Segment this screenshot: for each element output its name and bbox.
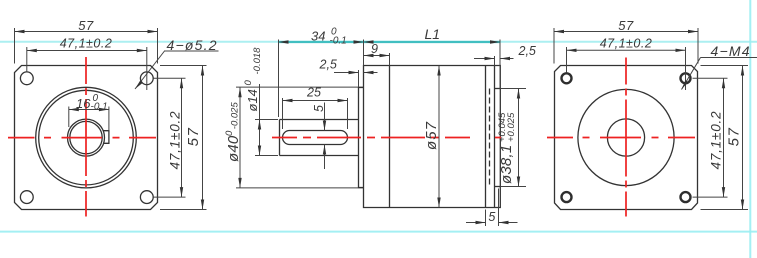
svg-text:0: 0 [243,80,254,86]
centerline vertical red [85,57,87,217]
dim line φ40 [239,87,241,188]
dim line 57 top [15,31,158,33]
label φ38,1 +0.045/+0.025 rotated [497,112,517,184]
pilot boss inner circle [39,90,134,185]
svg-text:-0.025: -0.025 [230,102,241,130]
svg-text:-0.018: -0.018 [252,47,263,75]
centerline vertical red right view [625,58,627,217]
svg-text:+0.025: +0.025 [506,112,517,142]
tapped hole M4 bottom-right [681,192,691,202]
extension lines right 57 right view [701,65,749,67]
dim 2,5 rear boss [494,56,496,66]
dim line right 47.1 right view [723,78,725,197]
svg-text:57: 57 [185,127,202,147]
keyway notch [103,131,109,144]
svg-text:16: 16 [76,96,91,111]
svg-text:2,5: 2,5 [319,58,337,72]
mounting hole top-left [20,72,33,85]
svg-text:57: 57 [726,127,743,147]
label 47,1±0.2 right rotated [168,111,183,170]
leader 4-M4 [701,57,757,59]
centerline horizontal red [8,137,167,139]
svg-text:25: 25 [306,86,321,100]
leader 4-φ5.2 [164,50,219,52]
shaft top edge [280,119,359,121]
label φ57 rotated [423,121,440,150]
centerline horizontal red right view [547,137,705,139]
mounting hole bottom-right [140,191,153,204]
svg-text:-0.1: -0.1 [91,102,108,113]
label 47,1±0.2 right rotated right view [709,111,724,170]
svg-text:47,1±0.2: 47,1±0.2 [709,111,724,170]
body rear face [485,66,487,208]
svg-text:-0.1: -0.1 [330,36,347,47]
svg-text:47,1±0.2: 47,1±0.2 [600,37,653,51]
dim line 47.1 top [27,50,147,52]
svg-text:5: 5 [312,105,326,112]
rear pilot boss [495,88,501,90]
pilot boss outer circle [36,87,137,188]
dim 25 keyway length [282,98,284,129]
cyan guide line top [0,41,757,43]
svg-text:5: 5 [488,210,495,224]
tapped hole M4 top-left [562,73,572,83]
svg-text:ø14: ø14 [245,89,260,111]
cyan guide line right vertical [749,0,751,258]
svg-text:L1: L1 [425,26,441,42]
extension lines 47.1 top [26,47,28,73]
flange square outline [555,66,698,210]
label φ14 0/-0.018 rotated [243,47,263,112]
extension lines right 47.1 [154,77,186,79]
dim 34 [278,40,280,118]
svg-text:ø40: ø40 [225,135,242,162]
dim φ57 [438,66,440,208]
extension lines right 47.1 right view [693,77,728,79]
hidden line rear [489,89,491,187]
dim line right 47.1 [181,78,183,197]
tapped hole M4 bottom-left [562,192,572,202]
dim 2,5 front boss [358,70,360,87]
svg-text:ø38,1: ø38,1 [498,145,515,184]
extension lines 47.1 top right view [566,47,568,73]
mounting hole top-right [140,72,153,85]
L1 arrows [279,40,289,43]
svg-text:57: 57 [618,18,634,33]
cyan guide line bottom [0,231,757,233]
svg-text:ø57: ø57 [423,121,440,150]
shaft hole outer circle [68,119,105,156]
dim line 34/L1 (teal: black under cyan guide) [279,41,501,43]
flange rear edge [389,66,391,208]
svg-text:4−ø5.2: 4−ø5.2 [167,37,218,53]
dim line 47.1 top right view [567,49,686,51]
label 57 right rotated [185,127,202,147]
mounting hole bottom-left [20,191,33,204]
dim line 57 top right view [554,31,698,33]
extension lines 57 top [14,28,16,64]
dim 9 [389,53,391,66]
extension lines right 57 [160,65,207,67]
pilot circle φ38.1 [578,89,674,185]
svg-text:9: 9 [371,42,378,56]
dim 5 keyway width [324,103,326,131]
shaft tip [279,120,281,156]
keyway slot [283,131,348,145]
front boss [359,88,364,188]
dim line right 57 [202,66,204,210]
extension lines 57 top right view [553,28,555,64]
flange square outline with chamfered corners [15,66,158,210]
label 57 right rotated right view [726,127,743,147]
svg-text:34: 34 [311,29,325,44]
shaft circle [607,119,644,156]
centerline red middle [272,137,506,139]
dim 16 with tolerance [68,107,70,128]
body rectangle [364,66,501,208]
svg-text:4−M4: 4−M4 [711,43,751,59]
dim φ14 [255,119,278,121]
svg-text:57: 57 [78,18,94,33]
svg-text:47,1±0.2: 47,1±0.2 [168,111,183,170]
shaft hole inner circle [70,121,102,153]
label 5 keyway rotated [312,105,326,112]
tapped hole M4 top-right [681,73,691,83]
dim 5 rear [485,210,487,227]
dim φ40 boss (left view) ext stubs [236,86,364,88]
dim line right 57 right view [742,66,744,210]
svg-text:0: 0 [224,130,235,136]
svg-text:2,5: 2,5 [518,44,536,58]
svg-text:47,1±0.2: 47,1±0.2 [60,37,113,51]
shaft bottom edge [280,155,359,157]
label ø40 0/-0.025 rotated [224,102,242,162]
dim φ38.1 [501,88,527,90]
